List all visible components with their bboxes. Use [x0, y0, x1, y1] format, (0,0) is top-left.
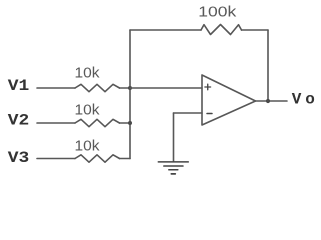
resistor R3 10k — [75, 155, 120, 162]
op-amp U1 — [202, 75, 256, 125]
wire V1 lead-in — [37, 87, 75, 89]
svg-text:V1: V1 — [8, 77, 30, 95]
svg-text:V3: V3 — [8, 149, 30, 167]
wire bus to op-amp noninverting input — [130, 87, 202, 89]
wire feedback top right — [242, 29, 269, 31]
wire ground stem — [173, 113, 175, 161]
wire output — [256, 100, 288, 102]
wire V3 lead-in — [37, 158, 75, 160]
svg-text:10k: 10k — [75, 103, 101, 119]
wire R3 to bus — [120, 158, 131, 160]
svg-text:10k: 10k — [75, 66, 101, 82]
node junction V1-bus — [128, 86, 132, 90]
op-amp plus pin marker — [205, 84, 211, 90]
ground — [158, 162, 188, 174]
wire R1 to bus — [120, 87, 131, 89]
wire summing bus vertical — [129, 30, 131, 159]
svg-text:V: V — [292, 91, 302, 109]
resistor RF 100k — [201, 25, 242, 35]
wire inverting input — [174, 112, 203, 114]
resistor R1 10k — [75, 84, 120, 91]
wire R2 to bus — [120, 122, 131, 124]
svg-text:100k: 100k — [198, 5, 237, 21]
wire feedback right drop — [267, 30, 269, 101]
svg-text:10k: 10k — [75, 138, 101, 154]
node output junction — [266, 99, 270, 103]
wire feedback top left — [130, 29, 201, 31]
node junction V2-bus — [128, 121, 132, 125]
op-amp minus pin marker — [207, 113, 212, 115]
resistor R2 10k — [75, 119, 120, 126]
wire V2 lead-in — [37, 122, 75, 124]
svg-text:V2: V2 — [8, 112, 30, 130]
svg-text:o: o — [305, 91, 315, 109]
